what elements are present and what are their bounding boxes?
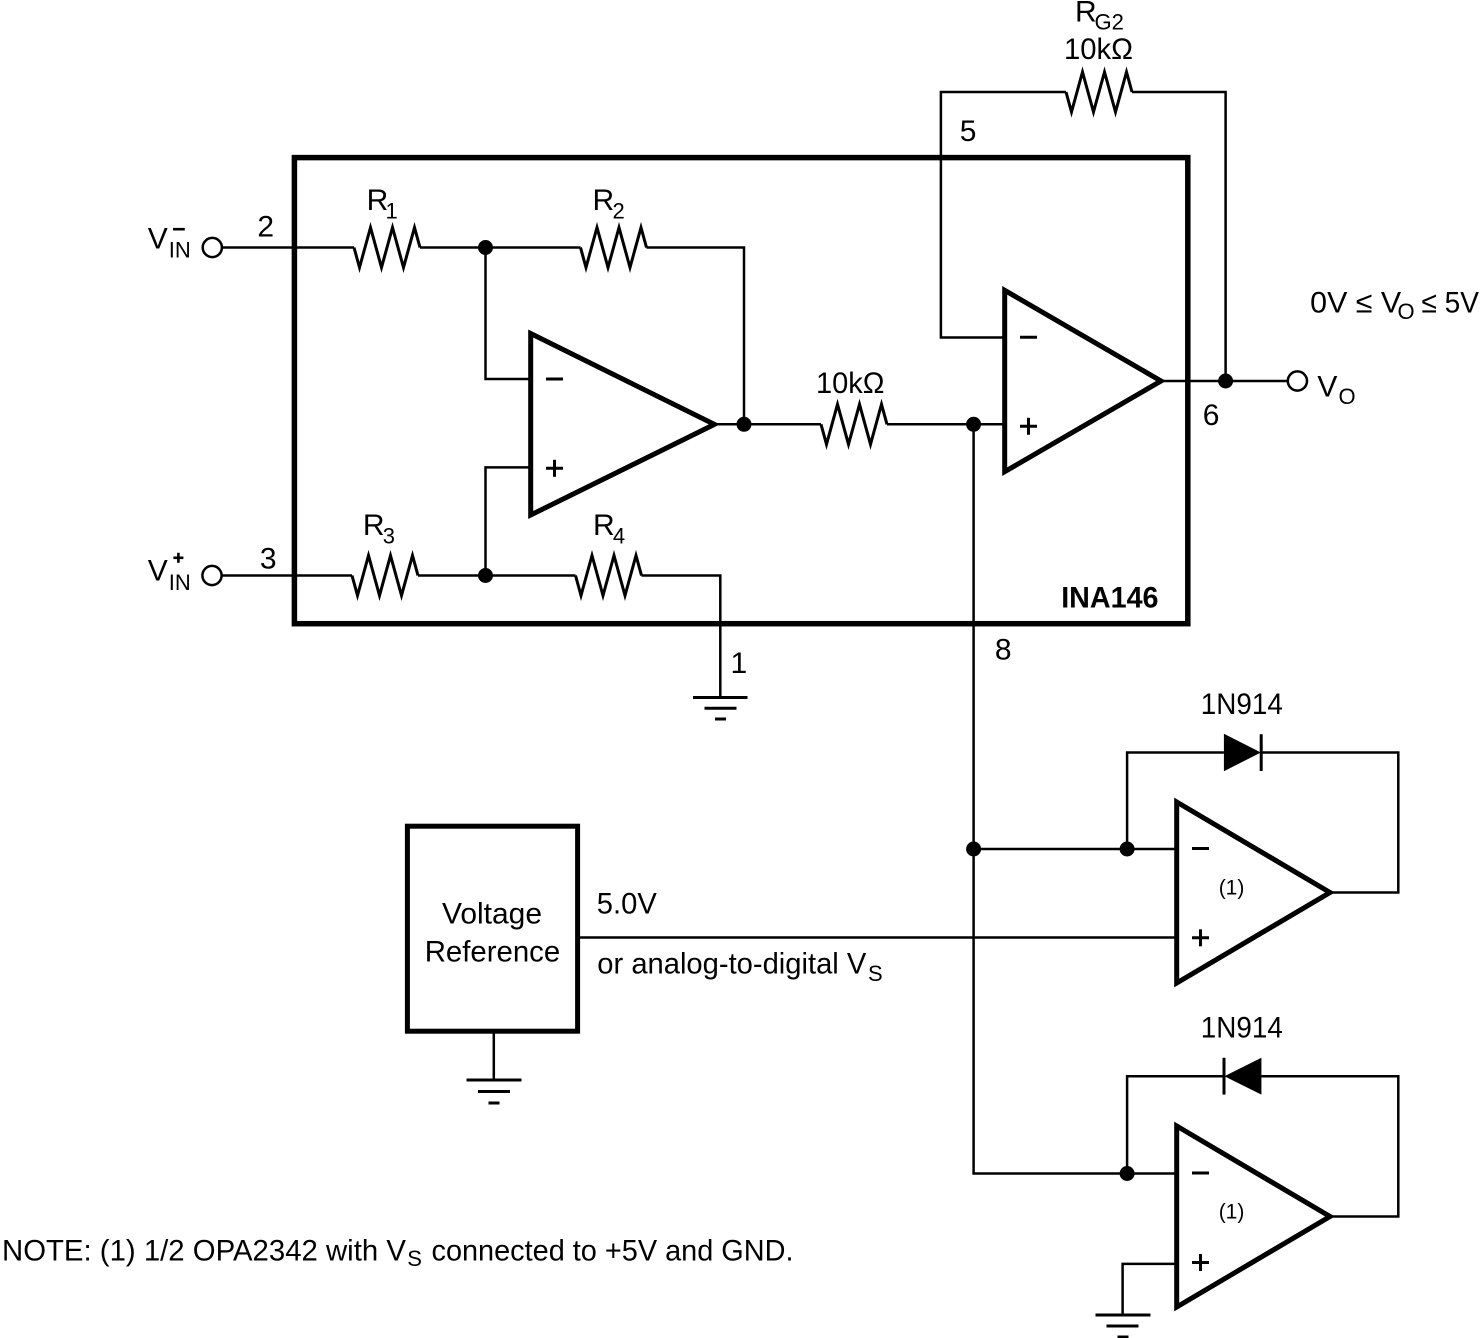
svg-text:1N914: 1N914 [1201, 1012, 1283, 1045]
svg-text:S: S [868, 961, 883, 986]
resistor R3 [352, 556, 418, 596]
resistor R2 [581, 228, 647, 268]
svg-text:2: 2 [613, 199, 625, 224]
wire U4 plus to ground [1123, 1264, 1177, 1315]
svg-text:R: R [363, 509, 385, 542]
wire 5.0V line to buffer1 plus [578, 936, 1177, 939]
INA146 box [294, 158, 1187, 624]
NOTE text [2, 1234, 794, 1271]
resistor R1 [354, 228, 420, 268]
label or analog-to-digital VS [597, 948, 882, 986]
svg-text:R: R [1075, 0, 1097, 29]
terminal VIN+ [202, 566, 221, 585]
wire node to U1 non-inverting input [486, 467, 534, 575]
wire buffer1 minus row [974, 848, 1177, 851]
U4 minus glyph [1192, 1172, 1209, 1175]
U1 plus glyph [546, 460, 563, 477]
label RG2 [1075, 0, 1124, 35]
terminal VIN- [203, 238, 222, 257]
label VIN+ [148, 553, 191, 595]
svg-text:INA146: INA146 [1061, 582, 1158, 615]
node buffer1 feedback [1120, 842, 1135, 857]
diode D1 1N914 [1224, 734, 1261, 771]
ground VRef [467, 1080, 522, 1103]
svg-text:O: O [1398, 299, 1415, 324]
diode D2 1N914 [1224, 1058, 1261, 1095]
wire RG2 left leg to U2 minus [941, 92, 1066, 338]
svg-text:or analog-to-digital V: or analog-to-digital V [597, 948, 866, 981]
label R1 [367, 184, 398, 224]
label R3 [363, 509, 395, 549]
svg-text:≤ 5V: ≤ 5V [1422, 286, 1480, 319]
svg-text:5.0V: 5.0V [597, 888, 657, 921]
node U1 output [737, 417, 752, 432]
wire R2 to U1 output node [647, 248, 745, 425]
U2 minus glyph [1020, 336, 1037, 339]
svg-text:Reference: Reference [425, 936, 561, 969]
wire R1 to R2 [420, 246, 581, 249]
terminal VO [1288, 371, 1307, 390]
ground pin1 [693, 698, 748, 720]
node pin8 top [966, 417, 981, 432]
wire buffer2 feedback right [1261, 1076, 1398, 1216]
op-amp U1 [531, 334, 715, 516]
svg-text:NOTE: (1) 1/2 OPA2342 with V: NOTE: (1) 1/2 OPA2342 with V [2, 1234, 406, 1267]
svg-text:(1): (1) [1219, 876, 1245, 899]
wire node to U1 inverting input [486, 248, 534, 380]
svg-text:3: 3 [383, 524, 395, 549]
wire VRef ground [493, 1031, 496, 1080]
svg-text:IN: IN [169, 238, 191, 263]
svg-text:(1): (1) [1219, 1201, 1245, 1224]
svg-text:V: V [148, 223, 168, 256]
resistor 10k mid [821, 404, 887, 444]
label R2 [593, 184, 625, 224]
U3 minus glyph [1192, 847, 1209, 850]
wire buffer1 feedback left [1127, 753, 1224, 850]
svg-text:4: 4 [613, 524, 625, 549]
svg-text:Voltage: Voltage [442, 898, 542, 931]
wire R4 to ground pin 1 [642, 576, 721, 698]
svg-text:O: O [1339, 384, 1356, 409]
svg-text:10kΩ: 10kΩ [816, 367, 885, 400]
node under R1 [478, 240, 493, 255]
resistor R4 [576, 556, 642, 596]
svg-text:5: 5 [960, 115, 977, 148]
wire pin8 vertical and buffer2 minus row [974, 424, 1177, 1173]
svg-text:R: R [593, 509, 615, 542]
wire buffer2 feedback left [1127, 1076, 1224, 1173]
svg-text:connected to +5V and GND.: connected to +5V and GND. [432, 1234, 794, 1267]
svg-text:R: R [593, 184, 615, 217]
U3 plus glyph [1192, 929, 1209, 946]
svg-text:0V ≤ V: 0V ≤ V [1310, 286, 1401, 319]
svg-text:IN: IN [169, 570, 191, 595]
wire 10k to U2 plus [887, 423, 1005, 426]
svg-text:G2: G2 [1095, 10, 1124, 35]
wire RG2 right leg to output node [1132, 92, 1226, 381]
svg-text:1: 1 [731, 647, 748, 680]
wire U1 output to 10k [714, 423, 821, 426]
svg-text:6: 6 [1203, 399, 1220, 432]
svg-text:10kΩ: 10kΩ [1064, 33, 1133, 66]
wire VIN+ to R3 [222, 574, 352, 577]
wire VIN- to R1 [222, 246, 354, 249]
svg-text:8: 8 [995, 633, 1012, 666]
svg-text:V: V [148, 555, 168, 588]
node buffer2 feedback [1120, 1166, 1135, 1181]
wire buffer1 feedback right [1261, 753, 1398, 893]
ground buffer2 [1096, 1315, 1151, 1337]
label output range [1310, 286, 1479, 324]
op-amp U4 buffer2 [1177, 1126, 1330, 1307]
wire R3 to R4 [418, 574, 576, 577]
svg-text:1N914: 1N914 [1201, 688, 1283, 721]
label R4 [593, 509, 625, 549]
svg-text:S: S [407, 1246, 422, 1271]
op-amp U2 [1005, 290, 1161, 471]
Voltage Reference label [425, 898, 561, 969]
resistor RG2 [1066, 72, 1132, 112]
svg-text:3: 3 [260, 542, 277, 575]
op-amp U3 buffer1 [1177, 802, 1330, 983]
label VO [1317, 370, 1355, 409]
node buffer1 minus tap [966, 842, 981, 857]
svg-text:2: 2 [257, 211, 274, 244]
node under R3 [478, 568, 493, 583]
U1 minus glyph [546, 378, 563, 381]
label VIN- [148, 223, 191, 263]
svg-text:V: V [1317, 370, 1337, 403]
U4 plus glyph [1192, 1254, 1209, 1271]
svg-text:1: 1 [386, 199, 398, 224]
U2 plus glyph [1020, 418, 1037, 435]
Voltage Reference box [407, 826, 577, 1031]
node output [1218, 374, 1233, 389]
wire U2 output to VO terminal [1161, 380, 1288, 383]
